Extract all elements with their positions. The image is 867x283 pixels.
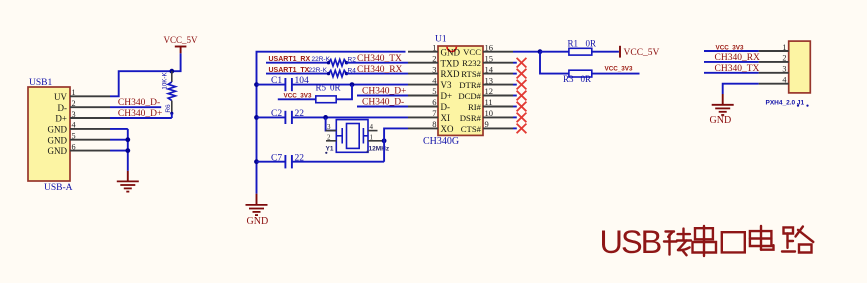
ground rail stub dark bbox=[256, 194, 258, 205]
svg-text:V3: V3 bbox=[441, 80, 452, 90]
svg-text:13: 13 bbox=[485, 75, 494, 85]
svg-text:USB1: USB1 bbox=[29, 78, 52, 88]
wire USB1 pin3 (D+) bbox=[110, 117, 172, 119]
svg-text:14: 14 bbox=[485, 64, 494, 74]
svg-text:4: 4 bbox=[370, 123, 374, 131]
svg-text:VCC_5V: VCC_5V bbox=[164, 35, 199, 45]
no-connect X on U1 pin 10 bbox=[513, 116, 517, 118]
svg-text:4: 4 bbox=[72, 121, 76, 130]
title glyph dian bbox=[750, 226, 774, 250]
wire R4 to U1 RXD bbox=[347, 73, 409, 75]
crystal pin 1 stub bbox=[368, 140, 384, 142]
resistor R5 body bbox=[316, 96, 336, 103]
svg-text:CH340_D-: CH340_D- bbox=[118, 98, 160, 108]
svg-text:VCC_5V: VCC_5V bbox=[624, 48, 660, 58]
wire R6 bottom to CH340_D+ net bbox=[171, 113, 173, 118]
wire USB1 pin4 GND bbox=[110, 128, 128, 130]
svg-text:6: 6 bbox=[72, 142, 76, 151]
svg-text:RXD: RXD bbox=[441, 69, 461, 79]
svg-text:DTR#: DTR# bbox=[459, 80, 481, 90]
svg-text:DSR#: DSR# bbox=[460, 113, 482, 123]
wire CH340_D- to U1 pin6 bbox=[357, 106, 408, 108]
node junction VCC bbox=[538, 49, 543, 54]
svg-text:1: 1 bbox=[370, 133, 374, 141]
svg-text:VCC_3V3: VCC_3V3 bbox=[284, 93, 312, 100]
svg-text:R5: R5 bbox=[316, 83, 327, 93]
USB1 pin 2 stub bbox=[70, 106, 110, 108]
svg-text:XI: XI bbox=[441, 113, 451, 123]
U1 pin 3 stub bbox=[408, 73, 438, 75]
U1 notch bbox=[447, 47, 456, 52]
svg-text:4: 4 bbox=[782, 76, 786, 85]
svg-text:DCD#: DCD# bbox=[458, 91, 481, 101]
svg-text:12: 12 bbox=[485, 86, 494, 96]
wire CH340_D+ to U1 pin5 bbox=[357, 95, 408, 97]
wire V3 junction down to R5 bbox=[336, 85, 352, 100]
svg-text:2: 2 bbox=[432, 53, 436, 63]
svg-text:GND: GND bbox=[48, 135, 68, 145]
svg-text:C7: C7 bbox=[271, 153, 282, 163]
wire junction down to R3 bbox=[540, 52, 569, 74]
svg-text:3: 3 bbox=[432, 64, 436, 74]
svg-text:6: 6 bbox=[432, 97, 436, 107]
power port VCC_5V (top-left) bar bbox=[175, 46, 187, 48]
svg-text:16: 16 bbox=[485, 42, 494, 52]
wire U1 VCC to junction bbox=[513, 51, 540, 53]
svg-text:USB-A: USB-A bbox=[44, 183, 73, 193]
U1 pin 6 stub bbox=[408, 106, 438, 108]
wire GND rail vertical bbox=[257, 52, 406, 194]
wire USART1_RX row bbox=[266, 62, 329, 64]
svg-text:RTS#: RTS# bbox=[461, 69, 481, 79]
wire rail to C1 bbox=[257, 84, 286, 86]
svg-text:USART1_TX: USART1_TX bbox=[269, 67, 310, 74]
node rail C2 bbox=[254, 115, 259, 120]
capacitor C2 bbox=[284, 111, 286, 124]
svg-text:CH340_D+: CH340_D+ bbox=[362, 87, 406, 97]
svg-text:R6: R6 bbox=[165, 104, 172, 113]
node junction V3/R5 bbox=[350, 82, 355, 87]
svg-text:2: 2 bbox=[72, 99, 76, 108]
svg-text:C1: C1 bbox=[271, 76, 282, 86]
USB1 pin 6 stub bbox=[70, 150, 110, 152]
crystal pin 3 stub bbox=[326, 130, 337, 132]
resistor R4 body bbox=[329, 70, 347, 76]
ground symbol left bbox=[117, 180, 139, 182]
J1 pin 1 stub bbox=[759, 50, 789, 52]
node junction crystal pin1 / XO bbox=[382, 138, 387, 143]
svg-text:USART1_RX: USART1_RX bbox=[269, 56, 311, 63]
USB1 pin 3 stub bbox=[70, 117, 110, 119]
svg-text:0R: 0R bbox=[330, 83, 341, 93]
svg-text:15: 15 bbox=[485, 53, 494, 63]
wire R2 to U1 TXD bbox=[347, 62, 409, 64]
svg-text:2: 2 bbox=[782, 54, 786, 63]
svg-text:0R: 0R bbox=[581, 74, 592, 84]
svg-text:9: 9 bbox=[485, 119, 489, 129]
wire USB1 pin2 (D-) bbox=[110, 106, 161, 108]
USB1 pin 1 stub bbox=[70, 95, 110, 97]
svg-text:TXD: TXD bbox=[441, 58, 460, 68]
svg-text:U1: U1 bbox=[435, 35, 447, 45]
svg-text:C2: C2 bbox=[271, 109, 282, 119]
svg-text:D-: D- bbox=[58, 103, 68, 113]
wire XI down to crystal pin3 bbox=[326, 117, 337, 130]
resistor R3 body bbox=[569, 70, 592, 77]
node junction pin5 bbox=[125, 137, 130, 142]
svg-text:R1: R1 bbox=[568, 38, 579, 48]
resistor R6 body bbox=[168, 82, 175, 101]
crystal pin 4 stub bbox=[368, 130, 378, 132]
node junction XI/crystal bbox=[323, 115, 328, 120]
U1 pin 11 stub bbox=[483, 106, 513, 108]
svg-text:D+: D+ bbox=[55, 114, 67, 124]
J1 pin 3 stub bbox=[759, 72, 789, 74]
svg-text:1: 1 bbox=[72, 88, 76, 97]
svg-text:7: 7 bbox=[432, 108, 436, 118]
resistor R6 lead top bbox=[171, 71, 173, 82]
U1 pin 8 stub bbox=[408, 127, 438, 129]
capacitor C1 bbox=[284, 78, 286, 91]
wire USB1 pin1 to VCC_5V rail bbox=[110, 53, 181, 96]
wire rail to C7 bbox=[257, 161, 286, 163]
svg-text:CTS#: CTS# bbox=[461, 124, 482, 134]
svg-text:D-: D- bbox=[441, 102, 451, 112]
svg-text:VCC_3V3: VCC_3V3 bbox=[716, 44, 744, 51]
svg-text:8: 8 bbox=[432, 119, 436, 129]
connector J1 body bbox=[789, 41, 811, 93]
resistor R1 body bbox=[569, 48, 592, 55]
svg-text:VCC_3V3: VCC_3V3 bbox=[605, 66, 633, 73]
svg-text:10K-K: 10K-K bbox=[162, 72, 169, 90]
U1 pin 16 stub bbox=[483, 51, 513, 53]
ground symbol middle bbox=[246, 204, 268, 206]
svg-text:RI#: RI# bbox=[468, 102, 482, 112]
resistor R2 body bbox=[329, 60, 347, 66]
USB1 pin 4 stub bbox=[70, 128, 110, 130]
wire J1 pin1 VCC_3V3 bbox=[704, 50, 759, 52]
svg-text:CH340_D+: CH340_D+ bbox=[118, 109, 162, 119]
wire rail to C2 bbox=[257, 116, 286, 118]
U1 pin 13 stub bbox=[483, 84, 513, 86]
ground stub J1 bbox=[722, 94, 724, 105]
svg-text:3: 3 bbox=[327, 123, 331, 131]
svg-text:GND: GND bbox=[710, 115, 732, 126]
node rail C7 bbox=[254, 159, 259, 164]
svg-text:XO: XO bbox=[441, 124, 454, 134]
U1 pin 7 stub bbox=[408, 116, 438, 118]
svg-text:10: 10 bbox=[485, 108, 494, 118]
svg-text:R232: R232 bbox=[462, 58, 481, 68]
crystal Y1 left electrode bbox=[341, 128, 343, 144]
svg-text:VCC: VCC bbox=[463, 47, 481, 57]
U1 pin 14 stub bbox=[483, 73, 513, 75]
svg-text:CH340_RX: CH340_RX bbox=[357, 65, 403, 75]
wire XO to crystal and C7 bbox=[384, 128, 408, 161]
wire USB1 gnd vertical bbox=[127, 129, 129, 171]
resistor R6 lead bottom bbox=[171, 101, 173, 114]
wire J1 pin2 CH340_RX bbox=[704, 61, 759, 63]
IC U1 CH340G body bbox=[438, 46, 483, 135]
U1 pin 9 stub bbox=[483, 127, 513, 129]
crystal Y1 right electrode bbox=[362, 128, 364, 144]
svg-text:5: 5 bbox=[432, 86, 436, 96]
title glyph chuan bbox=[693, 226, 717, 256]
svg-text:GND: GND bbox=[247, 216, 269, 227]
wire C7 to crystal right bbox=[292, 161, 384, 163]
wire C2 to U1 XI bbox=[292, 116, 408, 118]
svg-text:Y1: Y1 bbox=[326, 145, 334, 152]
U1 pin 4 stub bbox=[408, 84, 438, 86]
svg-text:0R: 0R bbox=[586, 38, 597, 48]
node junction pin6 bbox=[125, 148, 130, 153]
no-connect X on U1 pin 9 bbox=[513, 127, 517, 129]
wire R5 to VCC_3V3 bbox=[278, 98, 316, 100]
crystal pin 2 stub bbox=[326, 140, 336, 142]
no-connect X on U1 pin 13 bbox=[513, 84, 517, 86]
svg-text:USB: USB bbox=[600, 224, 661, 260]
svg-text:R3: R3 bbox=[563, 74, 574, 84]
U1 pin 12 stub bbox=[483, 95, 513, 97]
title glyph lu bbox=[782, 227, 813, 253]
svg-text:3: 3 bbox=[782, 65, 786, 74]
ground symbol left stub bbox=[127, 171, 129, 182]
svg-text:11: 11 bbox=[485, 97, 493, 107]
svg-text:D+: D+ bbox=[441, 91, 453, 101]
no-connect X on U1 pin 14 bbox=[513, 73, 517, 75]
power port VCC_5V (top-left) stub bbox=[180, 47, 182, 54]
svg-text:GND: GND bbox=[48, 125, 68, 135]
J1 pin 2 stub bbox=[759, 61, 789, 63]
svg-text:5: 5 bbox=[72, 132, 76, 141]
wire USART1_TX row bbox=[266, 73, 329, 75]
wire USB1 pin6 GND bbox=[110, 150, 128, 152]
wire J1 pin3 CH340_TX bbox=[704, 72, 759, 74]
wire R1 to VCC_5V port bbox=[592, 51, 619, 53]
wire USB1 pin5 GND bbox=[110, 139, 128, 141]
crystal Y1 inner body bbox=[347, 124, 360, 149]
svg-text:CH340_D-: CH340_D- bbox=[362, 98, 404, 108]
svg-text:CH340_TX: CH340_TX bbox=[715, 64, 760, 74]
U1 pin 2 stub bbox=[408, 62, 438, 64]
svg-text:1: 1 bbox=[782, 43, 786, 52]
svg-text:GND: GND bbox=[441, 47, 461, 57]
svg-text:1: 1 bbox=[432, 42, 436, 52]
svg-text:12MHz: 12MHz bbox=[369, 145, 390, 152]
capacitor C7 bbox=[284, 155, 286, 168]
wire R3 to VCC_3V3 bbox=[592, 73, 640, 75]
node junction VCC / R6 bbox=[169, 69, 174, 74]
J1 pin 4 stub bbox=[759, 83, 789, 85]
U1 pin 10 stub bbox=[483, 116, 513, 118]
crystal Y1 outer box bbox=[336, 120, 368, 153]
wire C1 to U1 V3 bbox=[292, 84, 408, 86]
USB1 pin 5 stub bbox=[70, 139, 110, 141]
U1 pin 5 stub bbox=[408, 95, 438, 97]
svg-text:GND: GND bbox=[48, 146, 68, 156]
ground symbol J1 bbox=[712, 104, 734, 106]
connector USB1 body bbox=[28, 87, 70, 181]
U1 pin 1 stub bbox=[408, 51, 438, 53]
svg-text:CH340G: CH340G bbox=[423, 136, 459, 147]
svg-text:UV: UV bbox=[54, 92, 67, 102]
power port VCC_5V (right) bar bbox=[619, 46, 621, 58]
svg-text:CH340_RX: CH340_RX bbox=[715, 53, 761, 63]
node rail C1 bbox=[254, 82, 259, 87]
svg-text:22R-K: 22R-K bbox=[309, 67, 328, 74]
wire junction to R1 bbox=[540, 51, 569, 53]
no-connect X on U1 pin 15 bbox=[513, 62, 517, 64]
wire J1 pin4 to ground bbox=[723, 84, 759, 94]
title glyph kou bbox=[722, 232, 745, 252]
no-connect X on U1 pin 12 bbox=[513, 95, 517, 97]
title glyph zhuan bbox=[664, 229, 691, 256]
svg-text:3: 3 bbox=[72, 110, 76, 119]
no-connect X on U1 pin 11 bbox=[513, 106, 517, 108]
svg-text:2: 2 bbox=[327, 133, 331, 141]
U1 pin 15 stub bbox=[483, 62, 513, 64]
svg-text:CH340_TX: CH340_TX bbox=[357, 54, 402, 64]
